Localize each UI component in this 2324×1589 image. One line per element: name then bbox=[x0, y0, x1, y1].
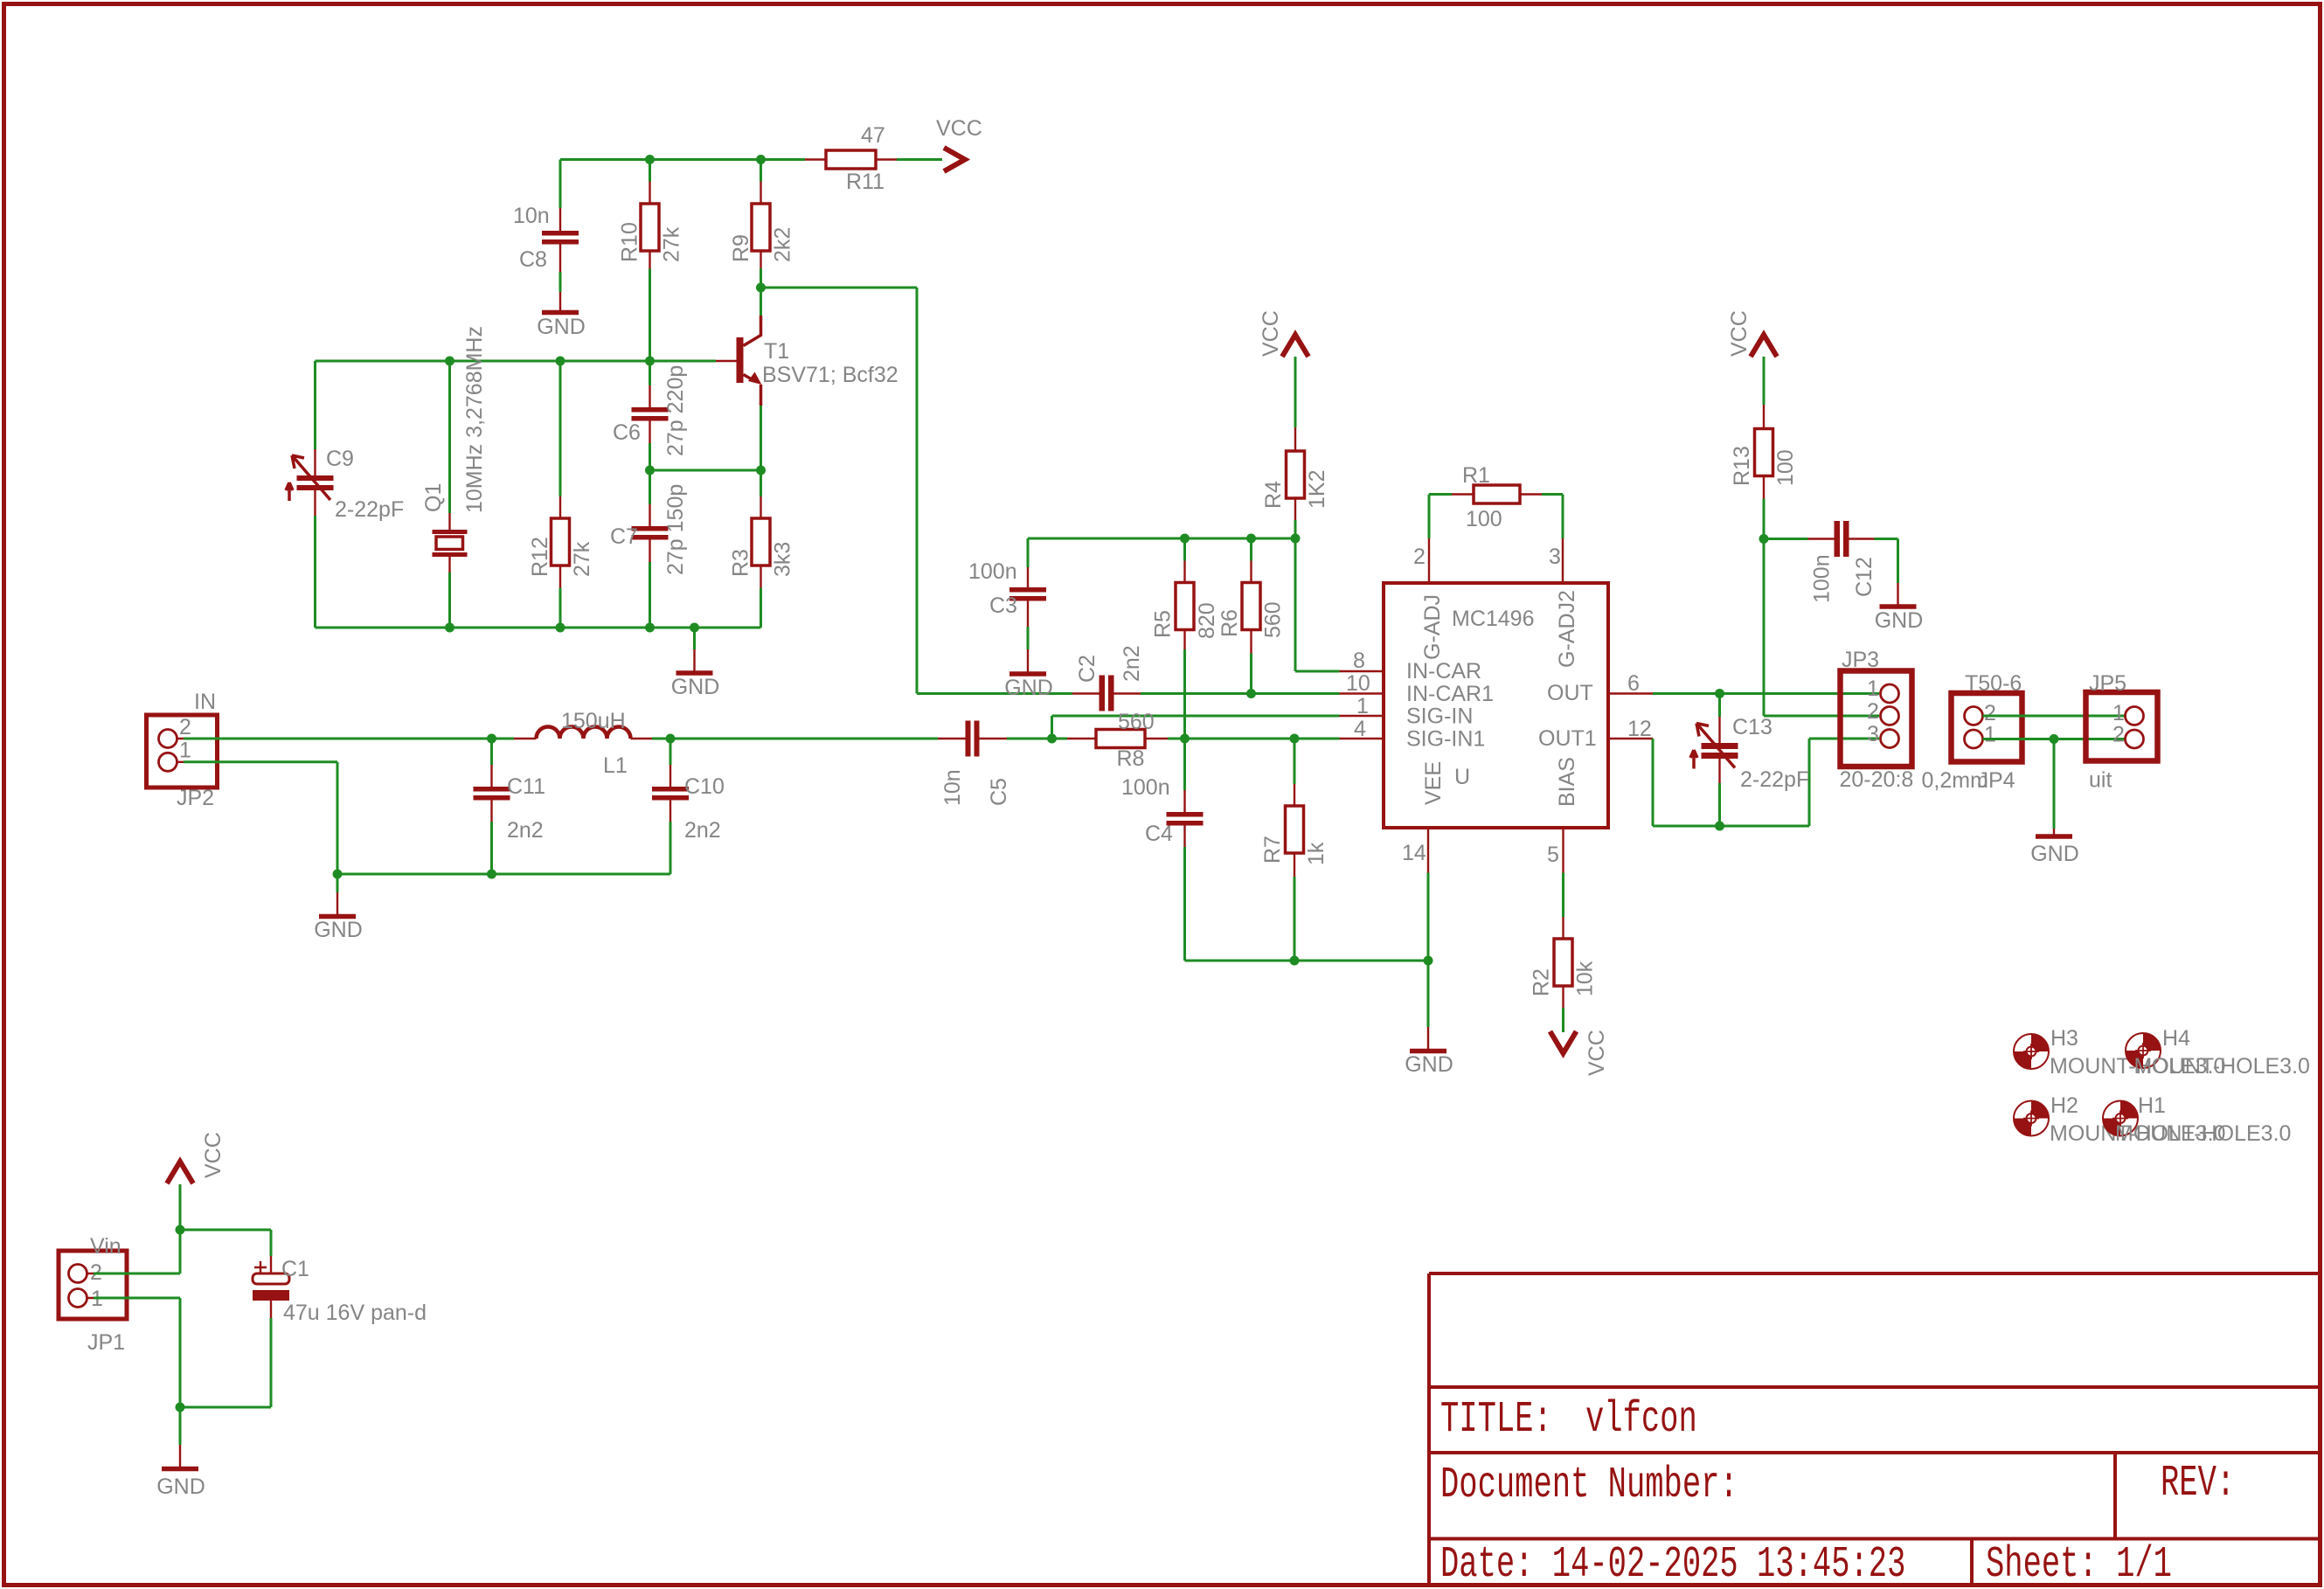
supply symbol VCC (above R13) bbox=[1727, 310, 1777, 357]
svg-text:H4: H4 bbox=[2162, 1026, 2190, 1051]
transformer JP4 T50-6 bbox=[1922, 671, 2022, 793]
svg-text:SIG-IN1: SIG-IN1 bbox=[1406, 727, 1485, 752]
svg-text:2n2: 2n2 bbox=[507, 818, 544, 843]
capacitor C2 bbox=[1072, 645, 1144, 711]
wire net JP2.1 - filter ground bbox=[184, 762, 670, 892]
svg-text:VCC: VCC bbox=[936, 116, 982, 141]
svg-text:C6: C6 bbox=[613, 420, 641, 445]
wire net VEE row (C4 - R7 - U1.14) bbox=[1185, 847, 1433, 1027]
wire net bias row (C3 - R5 - R6 - R4 - U1.8) bbox=[1028, 520, 1340, 671]
svg-text:3k3: 3k3 bbox=[771, 542, 795, 577]
svg-text:820: 820 bbox=[1195, 602, 1219, 639]
mounting hole H4 bbox=[2126, 1026, 2310, 1079]
svg-text:4: 4 bbox=[1354, 717, 1366, 741]
svg-text:H1: H1 bbox=[2138, 1093, 2166, 1118]
svg-text:100n: 100n bbox=[1121, 775, 1170, 800]
svg-text:R8: R8 bbox=[1117, 746, 1145, 771]
svg-text:R12: R12 bbox=[528, 537, 552, 577]
wire net R13 - C12 - JP3.2 bbox=[1759, 499, 1898, 717]
svg-text:C10: C10 bbox=[684, 774, 725, 799]
trimmer capacitor C9 bbox=[286, 447, 404, 522]
supply symbol VCC (above R4) bbox=[1259, 310, 1308, 357]
svg-text:L1: L1 bbox=[603, 753, 628, 778]
svg-text:T50-6: T50-6 bbox=[1965, 671, 2022, 696]
svg-text:14: 14 bbox=[1402, 841, 1426, 865]
resistor R3 bbox=[729, 496, 795, 588]
svg-text:C11: C11 bbox=[507, 774, 545, 799]
ground (oscillator) bbox=[671, 628, 720, 699]
svg-text:5: 5 bbox=[1547, 843, 1559, 867]
resistor R9 bbox=[729, 182, 795, 269]
supply symbol VCC (right of R11) bbox=[936, 116, 982, 171]
svg-text:GND: GND bbox=[314, 918, 363, 942]
svg-text:VEE: VEE bbox=[1421, 761, 1446, 805]
wire net OUT1 (U1.12 - C13 - JP3.3) bbox=[1653, 739, 1879, 831]
supply symbol VCC (below R2) bbox=[1550, 1030, 1610, 1076]
wire net JP2.2 - filter input bbox=[184, 734, 938, 766]
wire net VCC top rail bbox=[560, 155, 942, 208]
svg-text:2: 2 bbox=[1867, 699, 1879, 724]
svg-text:MOUNT-HOLE3.0: MOUNT-HOLE3.0 bbox=[2115, 1121, 2291, 1146]
svg-text:IN-CAR: IN-CAR bbox=[1406, 659, 1481, 683]
resistor R1 bbox=[1452, 463, 1542, 531]
svg-text:OUT: OUT bbox=[1547, 681, 1593, 705]
capacitor C3 bbox=[968, 559, 1046, 627]
svg-text:C4: C4 bbox=[1145, 822, 1173, 846]
svg-text:C9: C9 bbox=[326, 447, 354, 471]
svg-text:150uH: 150uH bbox=[561, 709, 626, 733]
svg-text:IN: IN bbox=[194, 690, 216, 714]
svg-text:G-ADJ: G-ADJ bbox=[1420, 594, 1445, 660]
svg-text:R4: R4 bbox=[1261, 481, 1286, 509]
svg-text:Sheet: 1/1: Sheet: 1/1 bbox=[1986, 1540, 2172, 1589]
svg-text:GND: GND bbox=[156, 1475, 205, 1499]
svg-text:JP1: JP1 bbox=[87, 1330, 125, 1355]
title block bbox=[1429, 1273, 2321, 1589]
wire net OUT (U1.6 - C13 - JP3.1) bbox=[1653, 689, 1879, 717]
svg-text:uit: uit bbox=[2089, 768, 2112, 793]
trimmer capacitor C13 bbox=[1690, 715, 1809, 792]
svg-text:Vin: Vin bbox=[90, 1234, 121, 1259]
svg-text:TITLE:: TITLE: bbox=[1440, 1395, 1552, 1444]
ground (output) bbox=[2030, 829, 2079, 866]
wire net emitter/mid (C6 - C7 - R3 - T1.E) bbox=[645, 406, 766, 504]
svg-text:Document Number:: Document Number: bbox=[1440, 1461, 1738, 1509]
transistor T1 bbox=[716, 316, 898, 406]
wire net JP4.1 - JP5.2 - GND bbox=[1983, 734, 2126, 829]
svg-text:8: 8 bbox=[1353, 649, 1365, 673]
svg-text:JP5: JP5 bbox=[2089, 671, 2126, 696]
capacitor C5 bbox=[938, 721, 1011, 807]
ground (JP1) bbox=[156, 1445, 205, 1499]
ground (filter) bbox=[314, 892, 363, 942]
connector JP5 bbox=[2086, 671, 2158, 793]
svg-text:Q1: Q1 bbox=[421, 483, 446, 512]
svg-text:H3: H3 bbox=[2050, 1026, 2078, 1051]
svg-text:6: 6 bbox=[1627, 671, 1640, 696]
ground (C12) bbox=[1875, 583, 1924, 633]
svg-text:1: 1 bbox=[1984, 723, 1996, 747]
svg-text:MC1496: MC1496 bbox=[1452, 607, 1535, 631]
supply symbol VCC (JP1) bbox=[167, 1132, 225, 1183]
svg-text:REV:: REV: bbox=[2161, 1459, 2235, 1508]
inductor L1 bbox=[514, 709, 652, 778]
svg-text:100n: 100n bbox=[1810, 554, 1835, 603]
wire net G-ADJ (R1) bbox=[1429, 495, 1563, 539]
resistor R4 bbox=[1261, 357, 1329, 520]
svg-text:R2: R2 bbox=[1530, 968, 1554, 996]
svg-text:G-ADJ2: G-ADJ2 bbox=[1555, 590, 1579, 668]
wire net collector (R9 - T1.C - C2 - U1.10) bbox=[756, 268, 1340, 698]
svg-text:10MHz 3,2768MHz: 10MHz 3,2768MHz bbox=[462, 326, 487, 513]
svg-text:560: 560 bbox=[1118, 710, 1155, 734]
connector JP2 bbox=[147, 690, 218, 810]
svg-text:3: 3 bbox=[1549, 545, 1561, 569]
svg-text:GND: GND bbox=[1405, 1052, 1453, 1077]
svg-text:1K2: 1K2 bbox=[1305, 470, 1329, 509]
svg-text:2n2: 2n2 bbox=[684, 818, 721, 843]
svg-text:R3: R3 bbox=[729, 549, 753, 577]
svg-text:2: 2 bbox=[1413, 545, 1426, 569]
svg-text:10n: 10n bbox=[940, 769, 965, 806]
svg-text:VCC: VCC bbox=[201, 1132, 225, 1178]
svg-text:SIG-IN: SIG-IN bbox=[1406, 704, 1473, 729]
svg-text:2n2: 2n2 bbox=[1120, 645, 1144, 682]
svg-text:27k: 27k bbox=[660, 226, 684, 262]
svg-text:3: 3 bbox=[1867, 722, 1879, 746]
wire net GND (JP1.1 - C1-) bbox=[94, 1298, 271, 1445]
op-amp U1 MC1496 bbox=[1340, 538, 1654, 873]
svg-text:100n: 100n bbox=[968, 559, 1017, 584]
crystal Q1 bbox=[421, 326, 487, 572]
svg-text:vlfcon: vlfcon bbox=[1585, 1395, 1697, 1444]
resistor R6 bbox=[1217, 561, 1286, 654]
wire net base (C9 - Q1 - R12 - C6 - T1.B) bbox=[316, 269, 717, 628]
wire net SIG-IN1 (C5 - R8 - U1.4) bbox=[1007, 649, 1340, 790]
svg-text:1: 1 bbox=[1356, 694, 1369, 718]
svg-text:20-20:8: 20-20:8 bbox=[1840, 767, 1914, 792]
svg-text:U: U bbox=[1454, 765, 1470, 789]
svg-text:IN-CAR1: IN-CAR1 bbox=[1406, 682, 1494, 706]
ground (U1 pin 14) bbox=[1405, 1027, 1453, 1077]
connector JP3 bbox=[1840, 648, 1914, 792]
svg-text:27k: 27k bbox=[570, 541, 594, 577]
svg-text:C2: C2 bbox=[1075, 655, 1100, 683]
svg-text:100: 100 bbox=[1466, 507, 1502, 531]
mounting hole H2 bbox=[2014, 1093, 2225, 1146]
capacitor C7 bbox=[610, 484, 688, 575]
capacitor C8 bbox=[513, 204, 579, 272]
svg-text:C3: C3 bbox=[989, 593, 1017, 618]
svg-text:2: 2 bbox=[2112, 723, 2125, 747]
svg-text:2-22pF: 2-22pF bbox=[1740, 767, 1809, 792]
svg-text:R5: R5 bbox=[1151, 610, 1176, 638]
svg-text:R13: R13 bbox=[1730, 446, 1754, 486]
svg-text:GND: GND bbox=[1004, 676, 1053, 700]
svg-text:47u 16V pan-d: 47u 16V pan-d bbox=[283, 1301, 427, 1325]
resistor R13 bbox=[1730, 357, 1798, 499]
svg-text:R11: R11 bbox=[846, 170, 885, 194]
svg-text:C13: C13 bbox=[1732, 715, 1772, 739]
capacitor C11 bbox=[474, 765, 546, 843]
svg-text:GND: GND bbox=[1875, 608, 1924, 633]
svg-text:VCC: VCC bbox=[1585, 1030, 1609, 1076]
resistor R7 bbox=[1260, 784, 1328, 877]
svg-text:C5: C5 bbox=[987, 778, 1011, 806]
svg-text:47: 47 bbox=[861, 123, 885, 148]
svg-text:R7: R7 bbox=[1260, 836, 1285, 864]
svg-text:R6: R6 bbox=[1217, 609, 1242, 637]
svg-text:12: 12 bbox=[1627, 717, 1652, 741]
svg-text:560: 560 bbox=[1261, 601, 1286, 638]
svg-text:JP2: JP2 bbox=[177, 786, 214, 810]
wire net Vin/VCC (JP1.2 - C1+) bbox=[94, 1184, 271, 1273]
resistor R11 bbox=[805, 123, 897, 194]
svg-text:10k: 10k bbox=[1573, 961, 1598, 996]
svg-text:T1: T1 bbox=[764, 339, 789, 364]
mounting hole H1 bbox=[2103, 1093, 2291, 1146]
mounting hole H3 bbox=[2014, 1026, 2225, 1079]
svg-text:OUT1: OUT1 bbox=[1538, 726, 1597, 751]
capacitor C10 bbox=[652, 765, 725, 843]
svg-text:1: 1 bbox=[1867, 677, 1879, 701]
resistor R5 bbox=[1151, 561, 1220, 650]
svg-text:10n: 10n bbox=[513, 204, 550, 228]
svg-text:1: 1 bbox=[179, 739, 191, 763]
svg-text:VCC: VCC bbox=[1727, 310, 1752, 357]
svg-text:JP3: JP3 bbox=[1842, 648, 1879, 672]
resistor R8 bbox=[1067, 710, 1168, 771]
svg-text:2-22pF: 2-22pF bbox=[335, 497, 404, 522]
resistor R10 bbox=[618, 182, 684, 269]
svg-text:R10: R10 bbox=[618, 222, 642, 262]
svg-text:GND: GND bbox=[2030, 842, 2079, 866]
svg-text:GND: GND bbox=[537, 315, 586, 339]
svg-text:Date: 14-02-2025 13:45:23: Date: 14-02-2025 13:45:23 bbox=[1440, 1540, 1905, 1589]
svg-text:BIAS: BIAS bbox=[1555, 757, 1579, 807]
svg-text:MOUNT-HOLE3.0: MOUNT-HOLE3.0 bbox=[2134, 1054, 2310, 1079]
svg-text:VCC: VCC bbox=[1259, 310, 1283, 357]
svg-text:1k: 1k bbox=[1304, 842, 1328, 865]
wire net JP4.2 - JP5.1 bbox=[1983, 715, 2126, 718]
svg-text:C12: C12 bbox=[1852, 557, 1877, 597]
svg-text:BSV71; Bcf32: BSV71; Bcf32 bbox=[762, 363, 898, 387]
svg-text:2k2: 2k2 bbox=[771, 227, 795, 262]
capacitor C1 (polarized) bbox=[253, 1256, 427, 1325]
resistor R2 bbox=[1530, 873, 1598, 1033]
svg-text:2: 2 bbox=[179, 715, 191, 739]
capacitor C12 bbox=[1808, 521, 1877, 603]
svg-text:100: 100 bbox=[1773, 449, 1798, 486]
svg-text:H2: H2 bbox=[2050, 1093, 2078, 1118]
svg-text:R1: R1 bbox=[1462, 463, 1490, 488]
capacitor C6 bbox=[613, 365, 688, 456]
svg-text:C8: C8 bbox=[519, 247, 547, 272]
svg-text:GND: GND bbox=[671, 675, 720, 699]
svg-text:27p 150p: 27p 150p bbox=[663, 484, 688, 575]
connector JP1 bbox=[59, 1234, 127, 1355]
capacitor C4 bbox=[1121, 775, 1204, 847]
wire net SIG-IN (U1.1) bbox=[1052, 715, 1340, 718]
svg-text:R9: R9 bbox=[729, 234, 753, 262]
ground (C3) bbox=[1004, 627, 1053, 700]
resistor R12 bbox=[528, 496, 594, 588]
svg-text:C7: C7 bbox=[610, 524, 638, 549]
wire net oscillator bottom rail bbox=[316, 562, 761, 633]
svg-text:10: 10 bbox=[1346, 671, 1370, 696]
svg-text:27p 220p: 27p 220p bbox=[663, 365, 688, 456]
ground (below C8) bbox=[537, 272, 586, 339]
svg-text:JP4: JP4 bbox=[1978, 768, 2015, 793]
svg-text:C1: C1 bbox=[281, 1257, 309, 1281]
